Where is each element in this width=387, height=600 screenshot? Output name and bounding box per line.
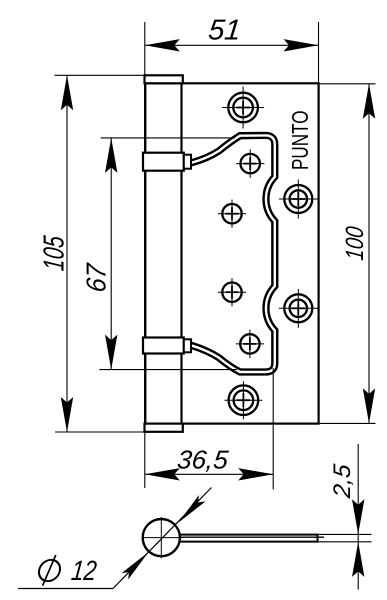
screw hole H3 circle <box>222 204 241 223</box>
hole H1 centerlines <box>222 87 264 129</box>
dimension 51 left arrowhead <box>145 39 180 51</box>
hole H3 center mark <box>226 207 239 220</box>
hole H5 centerlines <box>236 330 264 358</box>
screw hole H4 circle <box>222 283 241 302</box>
dimension 100 bottom arrowhead <box>363 388 375 423</box>
bottom knuckle <box>143 338 184 354</box>
hole H7 centerlines <box>279 180 318 219</box>
hole H3 centerlines <box>218 200 246 228</box>
svg-text:PUNTO: PUNTO <box>287 111 313 171</box>
svg-text:67: 67 <box>81 261 112 294</box>
barrel bottom cap <box>145 424 183 432</box>
hinge barrel right edge <box>180 83 182 423</box>
side view barrel centerlines <box>143 517 183 558</box>
second leaf inner contour (double line) <box>191 135 275 372</box>
dimension 36,5: extension and dimension lines <box>145 368 273 490</box>
dimension 51: extension and dimension lines <box>145 22 319 83</box>
hole H7 center mark <box>291 192 305 206</box>
hole H2 centerlines <box>236 149 264 177</box>
hole H6 center mark <box>236 393 250 407</box>
dimension 51 right arrowhead <box>284 39 319 51</box>
top knuckle <box>143 153 184 171</box>
diameter leader shoulder and diagonal lines <box>18 488 212 589</box>
dimension 105: extension and dimension lines <box>55 75 145 432</box>
hinge leaf plate outline (front view) <box>145 83 318 423</box>
hole H4 centerlines <box>218 278 246 306</box>
dimension 67 bottom arrowhead <box>105 335 117 370</box>
dimension 100 top arrowhead <box>363 84 375 119</box>
dimension 36,5 right arrowhead <box>238 468 273 480</box>
screw hole H8 right lower countersunk rings <box>284 294 312 322</box>
hole H2 center mark <box>244 157 257 170</box>
side view leaf plate edges and end cap <box>179 534 318 543</box>
screw hole H7 right upper countersunk rings <box>284 185 312 213</box>
hinge barrel left edge <box>144 83 146 423</box>
screw hole H2 circle <box>241 154 260 173</box>
top knuckle tab <box>184 155 191 169</box>
barrel top cap <box>145 75 183 83</box>
dimension 67: extension and dimension lines <box>99 138 237 370</box>
side view leaf boundary line <box>180 536 325 538</box>
svg-text:105: 105 <box>38 234 70 272</box>
screw hole H6 bottom countersunk rings <box>229 385 259 415</box>
side view barrel circle <box>143 519 180 556</box>
diameter symbol <box>37 555 61 586</box>
hole H5 center mark <box>243 337 256 350</box>
diameter leader upper arrowhead <box>175 495 205 526</box>
hole H1 center mark <box>236 101 250 115</box>
dimension 2,5: extension and dimension lines <box>319 444 372 590</box>
svg-text:2,5: 2,5 <box>329 462 356 500</box>
screw hole H5 circle <box>240 334 259 353</box>
svg-text:36,5: 36,5 <box>176 445 230 475</box>
bottom knuckle tab <box>184 339 191 352</box>
dimension 105 top arrowhead <box>61 75 73 110</box>
dimension 2,5 upper arrowhead <box>352 499 364 534</box>
dimension 2,5 lower arrowhead <box>352 542 364 577</box>
dimension 105 bottom arrowhead <box>61 397 73 432</box>
hole H8 center mark <box>291 301 305 315</box>
hole H4 center mark <box>226 286 239 299</box>
dimension 67 top arrowhead <box>105 138 117 173</box>
svg-text:12: 12 <box>70 555 99 586</box>
svg-text:100: 100 <box>341 225 369 261</box>
screw hole H1 top countersunk rings <box>228 93 258 123</box>
hole H6 centerlines <box>224 381 262 419</box>
diameter leader lower arrowhead <box>122 549 152 580</box>
hole H8 centerlines <box>279 289 318 328</box>
dimension 36,5 left arrowhead <box>145 468 180 480</box>
dimension 100: extension and dimension lines <box>319 84 376 424</box>
svg-text:51: 51 <box>207 15 243 47</box>
